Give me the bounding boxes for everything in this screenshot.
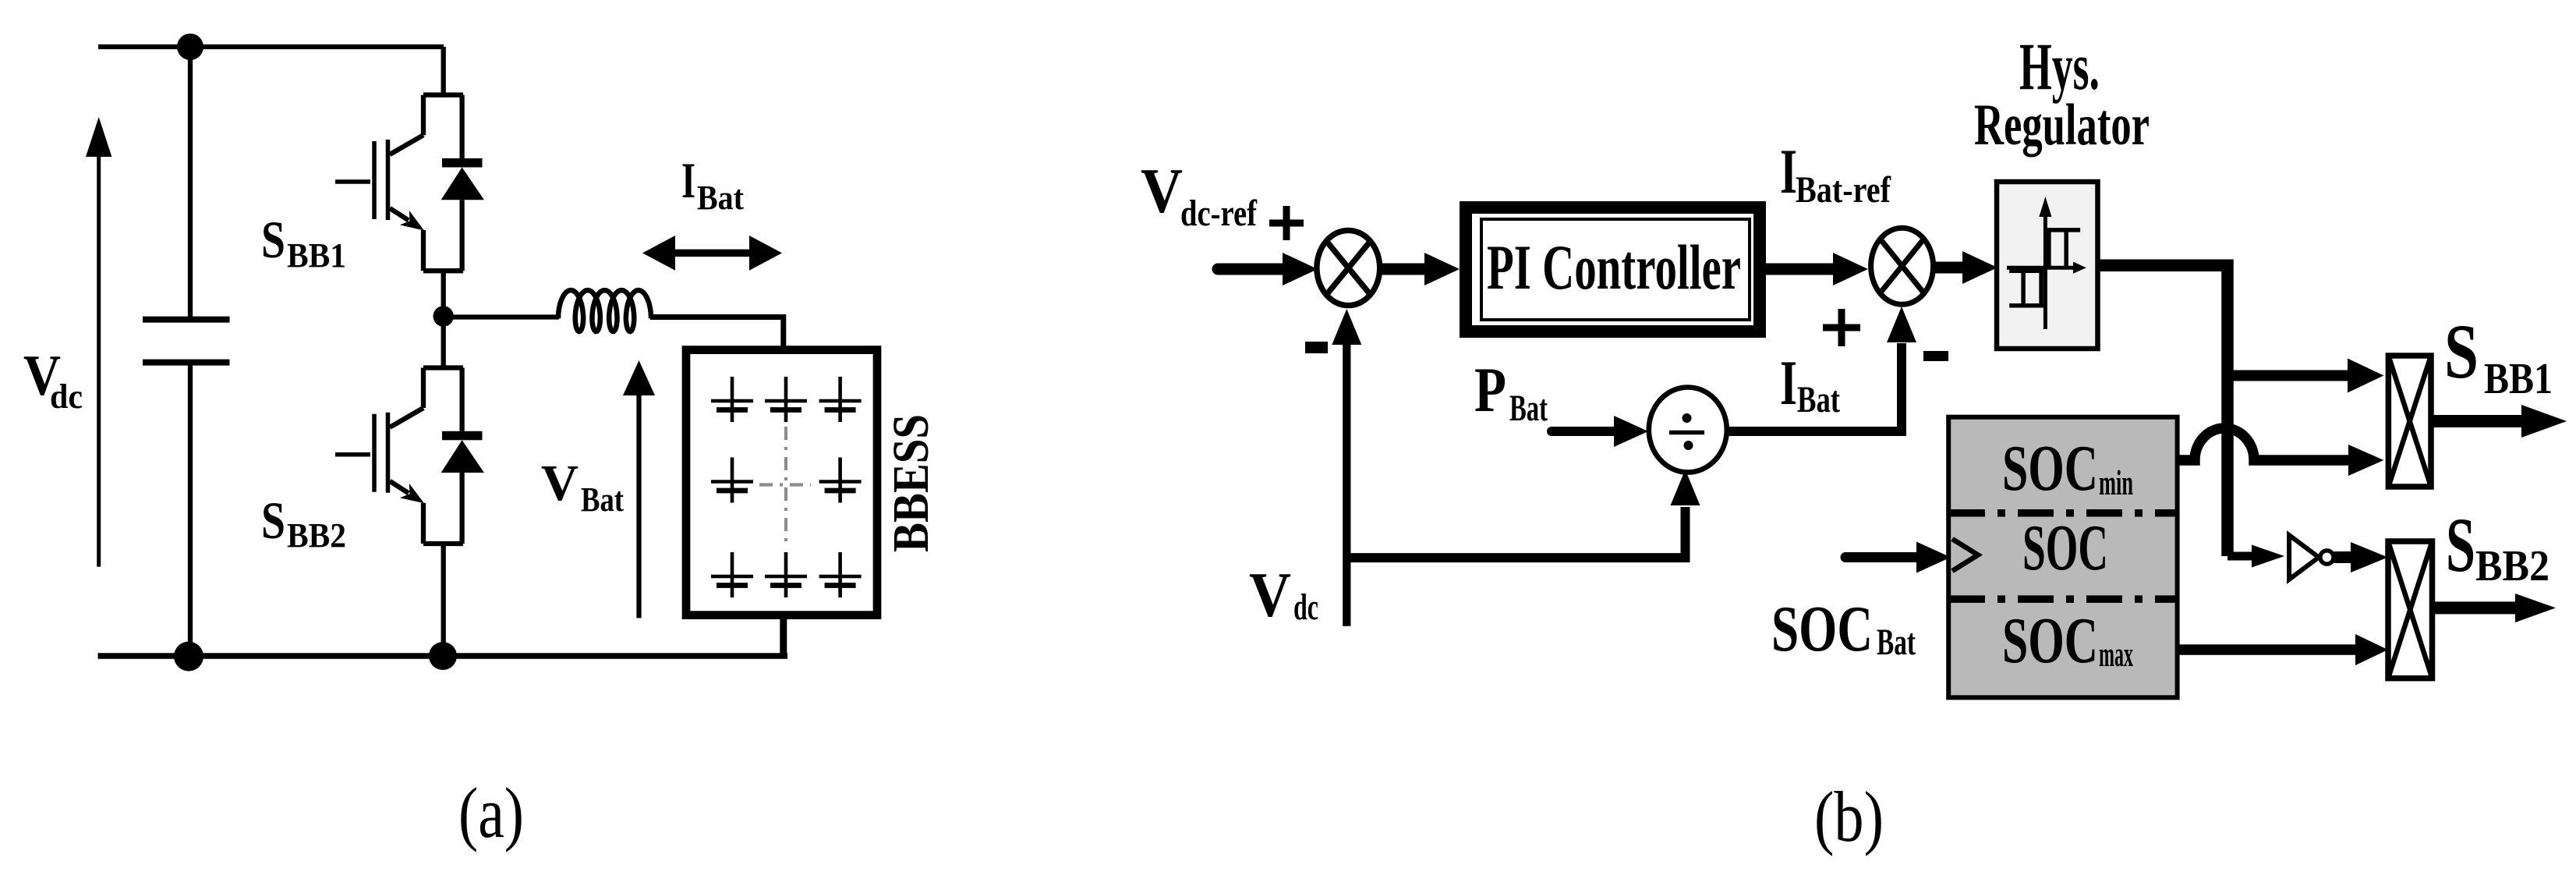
capacitor C (dc-link) (143, 320, 230, 363)
wire Hys output elbow down trunk (2098, 265, 2228, 556)
SOC block (gray) (1948, 417, 2177, 698)
battery BBESS box (686, 350, 877, 615)
svg-text:SOC: SOC (2002, 432, 2098, 505)
svg-text:I: I (681, 153, 695, 209)
svg-text:(a): (a) (458, 773, 524, 853)
label Vdc-ref (1141, 155, 1258, 234)
svg-text:BBESS: BBESS (883, 414, 939, 552)
label SBB2 (261, 491, 346, 555)
svg-text:S: S (2446, 502, 2475, 588)
transistor Q2 SBB2 (IGBT with antiparallel diode) (335, 368, 484, 544)
svg-text:S: S (261, 210, 285, 269)
SOC block input chevron (1952, 539, 1978, 571)
svg-text:Regulator: Regulator (1974, 93, 2150, 158)
wire divider output to S2 (1727, 343, 1902, 431)
plus sign at summer S1 (1269, 206, 1304, 240)
wire collector lead Q1 (441, 47, 446, 95)
wire PBat input arrow (1552, 416, 1648, 447)
svg-text:dc: dc (50, 378, 83, 416)
label IBat (681, 153, 744, 217)
svg-text:Bat: Bat (1509, 388, 1548, 429)
wire Vdc-ref input arrow (1218, 253, 1318, 285)
svg-text:BB2: BB2 (2475, 542, 2549, 590)
node mid junction dot (433, 306, 454, 326)
wire trunk branch to SBB1 gate arrow (2227, 359, 2383, 393)
svg-text:Bat-ref: Bat-ref (1796, 169, 1891, 211)
svg-text:BB2: BB2 (287, 516, 346, 555)
wire SBB1 output arrow (2431, 405, 2567, 438)
svg-text:S: S (2444, 308, 2479, 395)
svg-text:V: V (1249, 559, 1291, 630)
wire mid node to Q2 collector (441, 317, 446, 368)
divider block (circle with division sign) (1649, 388, 1727, 473)
svg-text:Bat: Bat (1877, 622, 1916, 663)
svg-text:dc: dc (1293, 587, 1318, 628)
label Vdc (1249, 559, 1318, 630)
svg-text:S: S (261, 491, 285, 550)
label SOCBat (1771, 593, 1916, 665)
wire Vdc feedback arrow into S1 (1332, 309, 1361, 626)
wire S2 to Hys regulator arrow (1934, 251, 1997, 284)
battery continuation dash-dot marks (759, 427, 811, 543)
svg-text:(b): (b) (1814, 777, 1884, 856)
wire SOCmax output arrow (2178, 634, 2388, 665)
wire S1 to PI controller arrow (1380, 253, 1460, 285)
summer S1 (circle with X) (1317, 230, 1380, 305)
label VBat (541, 455, 624, 519)
label PBat (1474, 354, 1548, 429)
wire Q2 emitter to bottom bus (441, 544, 446, 656)
wire PI output to summer S2 arrow (1766, 253, 1869, 285)
label SBB1 (2444, 308, 2553, 403)
wire Vdc branch to divider (1346, 507, 1685, 558)
svg-text:Bat: Bat (581, 480, 624, 519)
IBat bidirectional arrow (642, 236, 782, 271)
label IBat (1780, 347, 1840, 420)
svg-text:Bat: Bat (697, 179, 744, 217)
svg-text:Bat: Bat (1797, 379, 1840, 420)
svg-text:SOC: SOC (1771, 593, 1873, 665)
wire inductor to battery elbow (650, 317, 784, 352)
svg-text:V: V (541, 455, 579, 512)
svg-text:BB1: BB1 (2484, 355, 2553, 403)
minus sign at summer S1 (1305, 342, 1328, 353)
wire SOCmin output with hop over trunk (2178, 428, 2384, 476)
wire SOCBat input arrow (1845, 542, 1951, 573)
battery cells grid (711, 377, 862, 597)
label SBB1 (261, 210, 346, 275)
svg-text:SOC: SOC (2002, 604, 2098, 677)
wire capacitor upper lead (188, 47, 193, 320)
label Hys. Regulator (1974, 29, 2150, 158)
Vdc measurement arrow (86, 117, 111, 567)
svg-text:dc-ref: dc-ref (1180, 193, 1258, 234)
label BBESS (rotated) (883, 414, 939, 552)
arrowhead into S2 bottom (1887, 307, 1916, 342)
svg-text:I: I (1780, 347, 1797, 418)
svg-text:SOC: SOC (2022, 512, 2108, 584)
node bottom-left junction dot (174, 642, 203, 672)
label Vdc (23, 344, 83, 416)
wire NOT gate to SBB2 box arrow (2334, 542, 2388, 572)
svg-text:BB1: BB1 (287, 236, 346, 275)
wire capacitor lower lead (188, 363, 193, 656)
wire Q1 emitter to mid node (441, 271, 446, 317)
svg-text:min: min (2099, 463, 2133, 502)
NOT gate (inverter) (2289, 535, 2334, 580)
wire trunk to NOT gate arrow (2227, 545, 2284, 568)
wire mid node to inductor (452, 314, 559, 319)
multiplier X-box SBB1 (2388, 356, 2431, 487)
svg-text:PI Controller: PI Controller (1487, 232, 1741, 303)
wire SBB2 output arrow (2433, 594, 2557, 622)
inductor L (558, 290, 651, 331)
node bottom-mid junction dot (429, 642, 457, 670)
wire top bus (98, 44, 444, 49)
plus sign at summer S2 (1823, 309, 1860, 346)
svg-text:V: V (1141, 155, 1183, 226)
transistor Q1 SBB1 (IGBT with antiparallel diode) (335, 95, 484, 271)
arrowhead into divider bottom (1671, 470, 1700, 505)
label SBB2 (2446, 502, 2549, 590)
Hys regulator block (1997, 182, 2098, 349)
node top junction dot (177, 34, 203, 60)
PI controller box (1466, 207, 1760, 331)
summer S2 (circle with X) (1871, 228, 1934, 304)
wire bottom bus (98, 653, 787, 659)
wire battery to bottom bus (780, 615, 787, 657)
minus sign at summer S2 (1923, 351, 1948, 361)
VBat measurement arrow (623, 360, 655, 618)
svg-text:P: P (1474, 354, 1506, 425)
label IBat-ref (1780, 136, 1891, 211)
svg-text:max: max (2099, 634, 2133, 674)
svg-text:I: I (1780, 136, 1797, 207)
multiplier X-box SBB2 (2388, 541, 2433, 679)
